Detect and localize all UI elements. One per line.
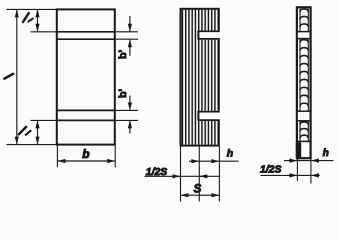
dimension h middle — [189, 159, 239, 163]
label b — [82, 147, 89, 161]
middle view lower slot — [198, 111, 222, 121]
middle view bar outline — [181, 9, 219, 146]
dimension l1 bottom — [35, 120, 39, 144]
svg-text:h: h — [227, 147, 233, 159]
label h middle — [227, 147, 233, 159]
label b' bottom — [117, 86, 129, 99]
right view scallop stack middle — [300, 39, 308, 111]
svg-text:1/2S: 1/2S — [146, 167, 167, 178]
dimension b — [57, 146, 115, 168]
middle extension lines — [181, 146, 220, 201]
right view lap section — [296, 142, 301, 158]
label 1/2S middle — [146, 167, 167, 178]
left view top extension line — [7, 8, 57, 10]
dimension 1/2S middle — [145, 174, 220, 178]
svg-text:b: b — [82, 147, 89, 161]
middle view hatching — [181, 10, 218, 145]
label l — [4, 74, 13, 79]
right view seam line — [296, 140, 312, 142]
right view strip outline — [297, 7, 311, 158]
dimension b' top — [128, 16, 132, 56]
label b' top — [117, 47, 129, 60]
left view groove right extensions — [115, 32, 138, 121]
dimension 1/2S right — [261, 173, 320, 177]
left view plate outline — [57, 9, 115, 144]
dimension h right — [284, 159, 334, 163]
label h right — [323, 148, 329, 159]
right extension lines — [297, 159, 311, 184]
dimension b' bottom — [128, 96, 132, 134]
right view upper slot band — [296, 32, 312, 39]
svg-text:S: S — [194, 183, 202, 195]
dimension S middle — [181, 193, 220, 197]
left view bottom extension line — [7, 144, 57, 146]
left view lower groove left extension — [31, 119, 57, 121]
svg-text:1/2S: 1/2S — [260, 164, 281, 175]
svg-text:h: h — [323, 148, 329, 159]
dimension l1 top — [35, 9, 39, 31]
label l1 top — [23, 13, 33, 22]
left view lower groove lines — [57, 110, 115, 120]
left view upper groove left extension — [31, 31, 57, 33]
right view scallop stack lower — [300, 122, 308, 142]
right view lower slot band — [296, 111, 312, 121]
left view upper groove lines — [57, 32, 115, 39]
label 1/2S right — [260, 164, 281, 175]
label l1 bottom — [19, 127, 31, 135]
middle view upper slot — [198, 31, 222, 40]
right view scallop stack upper — [300, 9, 308, 31]
dimension l — [15, 9, 19, 144]
label S middle — [194, 183, 202, 195]
